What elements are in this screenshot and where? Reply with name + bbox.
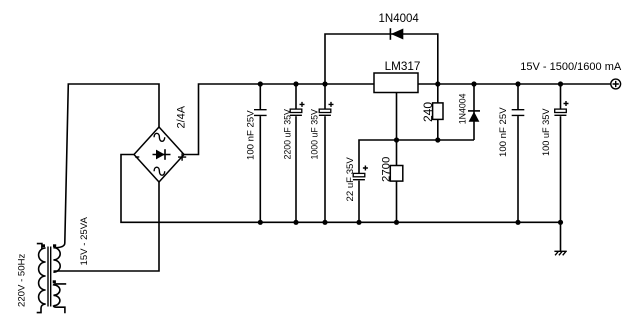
label C5 100 nF 25V bbox=[498, 107, 509, 157]
junction ground rail at C2 bbox=[293, 220, 298, 225]
capacitor C2 2200uF 35V bbox=[290, 84, 305, 222]
transformer T1 secondary winding B bbox=[53, 285, 60, 306]
capacitor C3 1000uF 35V bbox=[319, 84, 334, 222]
svg-text:2700: 2700 bbox=[380, 157, 392, 182]
junction adjust node at R2 bbox=[394, 137, 399, 142]
label primary 220V - 50Hz bbox=[16, 253, 27, 307]
label secondary 15V - 25VA bbox=[79, 217, 90, 266]
svg-text:15V - 1500/1600 mA: 15V - 1500/1600 mA bbox=[520, 61, 622, 73]
label BR1 2|4A bbox=[176, 105, 188, 128]
capacitor C5 100nF 25V bbox=[512, 84, 525, 222]
transformer T1 secondary winding B bottom lead bbox=[53, 306, 65, 314]
junction top rail at LM317 output bbox=[435, 81, 440, 86]
junction top rail at C5 bbox=[515, 81, 520, 86]
label R2 2700 bbox=[380, 157, 392, 182]
junction ground rail at C4 bbox=[356, 220, 361, 225]
diode D2 1N4004 (vertical, pointing up) bbox=[468, 84, 480, 140]
capacitor C1 100nF 25V bbox=[254, 84, 267, 222]
label U1 LM317 bbox=[385, 60, 421, 73]
label D2 1N4004 bbox=[457, 93, 467, 124]
label C4 22 uF 35V bbox=[345, 157, 356, 202]
transformer T1 primary top lead bbox=[37, 244, 42, 249]
label C3 1000 uF 35V bbox=[310, 109, 320, 160]
bridge BR1 ~ mark top bbox=[154, 133, 165, 141]
resistor R2 2700 bbox=[390, 140, 403, 222]
junction ground rail at C6 bbox=[558, 220, 563, 225]
junction top rail at C2 bbox=[293, 81, 298, 86]
bridge BR1 - mark bbox=[135, 156, 139, 158]
transformer T1 secondary winding B polarity dot bbox=[53, 280, 56, 283]
transformer T1 primary winding bbox=[39, 248, 46, 304]
svg-text:1N4004: 1N4004 bbox=[457, 93, 467, 124]
bridge BR1 internal diode symbol bbox=[153, 149, 171, 160]
junction top rail at C6 bbox=[558, 81, 563, 86]
svg-text:100 nF 25V: 100 nF 25V bbox=[498, 107, 509, 157]
wire ground drop bbox=[560, 222, 562, 251]
svg-text:240: 240 bbox=[421, 102, 435, 122]
svg-text:15V - 25VA: 15V - 25VA bbox=[79, 217, 90, 266]
wire adjust node horizontal bbox=[359, 140, 474, 173]
svg-text:100 uF 35V: 100 uF 35V bbox=[541, 108, 551, 156]
svg-text:22 uF 35V: 22 uF 35V bbox=[345, 157, 356, 202]
bridge BR1 + mark bbox=[178, 153, 186, 161]
transformer T1 secondary winding B top stub bbox=[53, 284, 66, 286]
wire secondary A top lead up to top-left horizontal and down to bridge AC1 bbox=[54, 84, 160, 248]
wire bridge - output down to ground rail bbox=[121, 155, 561, 223]
svg-text:2200 uF 35V: 2200 uF 35V bbox=[282, 109, 292, 160]
junction adjust node at R1 bbox=[435, 137, 440, 142]
capacitor C6 100uF 35V bbox=[554, 84, 568, 222]
transformer T1 core bbox=[48, 247, 51, 307]
wire bridge AC2 down and left to secondary A bottom bbox=[54, 182, 160, 271]
junction top rail at D2 bbox=[471, 81, 476, 86]
junction ground rail at C3 bbox=[322, 220, 327, 225]
transformer T1 secondary winding A polarity dot bbox=[53, 244, 56, 247]
svg-text:1000 uF 35V: 1000 uF 35V bbox=[310, 109, 320, 160]
bridge BR1 ~ mark bottom bbox=[154, 167, 165, 175]
label output 15V - 1500/1600 mA bbox=[520, 61, 622, 73]
output terminal bbox=[611, 79, 621, 89]
wire 1N4004 protection loop from C3 node over LM317 to output node bbox=[325, 34, 438, 84]
ground symbol bbox=[554, 251, 566, 255]
svg-text:1N4004: 1N4004 bbox=[379, 13, 420, 25]
junction top rail at C3 and loop bbox=[322, 81, 327, 86]
label R1 240 bbox=[421, 102, 435, 122]
resistor R1 240 bbox=[433, 84, 443, 140]
label C6 100 uF 35V bbox=[541, 108, 551, 156]
label D1 1N4004 bbox=[379, 13, 420, 25]
transformer T1 primary polarity dot bbox=[42, 244, 45, 247]
diode D1 1N4004 (top loop, pointing left) bbox=[390, 28, 403, 40]
capacitor C4 22uF 35V bbox=[353, 166, 368, 223]
wire bridge + output to top rail bbox=[184, 84, 611, 155]
label C1 100 nF 25V bbox=[246, 110, 257, 160]
regulator U1 LM317 body bbox=[374, 73, 418, 93]
junction top rail at C1 bbox=[258, 81, 263, 86]
svg-text:LM317: LM317 bbox=[385, 60, 421, 73]
junction ground rail at R2 bbox=[394, 220, 399, 225]
svg-text:100 nF 25V: 100 nF 25V bbox=[246, 110, 257, 160]
junction ground rail at C5 bbox=[515, 220, 520, 225]
label C2 2200 uF 35V bbox=[282, 109, 292, 160]
bridge rectifier BR1 diamond bbox=[134, 127, 184, 182]
svg-text:2/4A: 2/4A bbox=[176, 105, 188, 128]
transformer T1 secondary winding A bbox=[53, 248, 60, 273]
junction ground rail at C1 bbox=[258, 220, 263, 225]
U1 adjust pin wire bbox=[396, 93, 398, 141]
svg-text:220V - 50Hz: 220V - 50Hz bbox=[16, 253, 27, 307]
transformer T1 primary bottom lead bbox=[37, 304, 46, 313]
